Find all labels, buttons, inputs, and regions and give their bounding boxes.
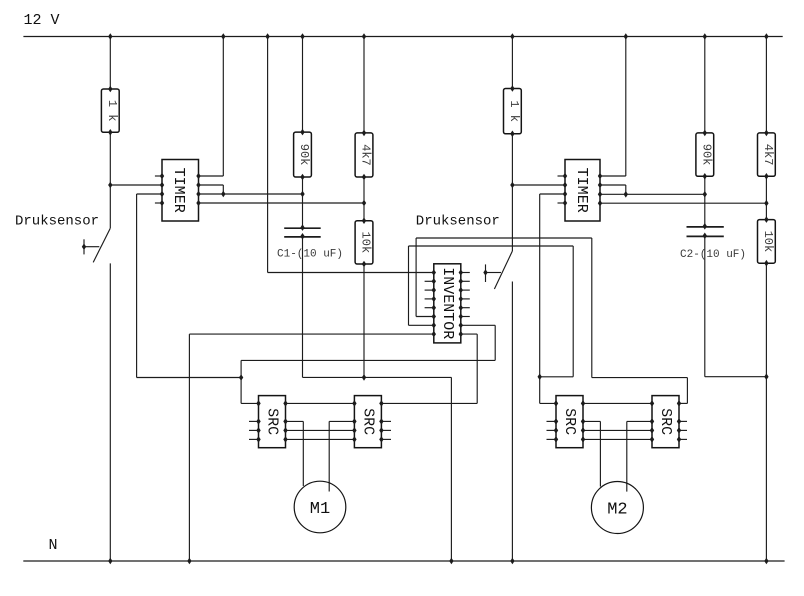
- svg-text:10k: 10k: [359, 232, 373, 254]
- svg-text:N: N: [49, 537, 58, 554]
- node junction SRC3 feed / U2 pin7 branch: [538, 374, 542, 381]
- wire R4 bottom to C1 net junction: [363, 264, 365, 377]
- timer U1 pin 2 left: [160, 182, 164, 189]
- resistor R1 1k (left): [101, 86, 119, 136]
- wire U5 to motor M1 right lead: [329, 420, 354, 422]
- driver U7 SRC box: [652, 396, 679, 448]
- wire U1 pin3 net down-left: [136, 194, 138, 378]
- wire +12V rail to R6 top: [703, 33, 707, 40]
- driver U6 pin dots: [554, 400, 585, 443]
- inverter U2 pins 2-5 left stubs: [425, 281, 434, 307]
- wire C2 bottom down-right to R8 net: [704, 236, 706, 376]
- wire U2 pin 6 left up-over to SRC4 top-right pin: [416, 316, 434, 318]
- motor M2: [591, 482, 643, 534]
- timer U3 pin 8 right wire to R7 bottom node: [598, 200, 602, 207]
- wire U4-U5 top pins: [286, 402, 355, 404]
- wire junction up-over to INVENTOR pin 7 right: [240, 360, 242, 403]
- node junction U1 pin6/pin7 net: [221, 191, 225, 198]
- wire junction to TIMER2 pin 2: [512, 184, 565, 186]
- timer U3 pin 6 right wire: [598, 182, 602, 189]
- resistor R2 90k (left): [294, 129, 312, 181]
- capacitor C1 plates: [284, 224, 321, 239]
- svg-text:1 k: 1 k: [507, 100, 521, 122]
- wire junction to TIMER1 pin 2: [110, 184, 162, 186]
- svg-text:SRC: SRC: [264, 408, 281, 435]
- svg-text:4k7: 4k7: [761, 144, 775, 166]
- wire U2 pin 8 left to N rail: [189, 333, 433, 335]
- svg-text:Druksensor: Druksensor: [15, 214, 99, 230]
- wire down to SRC3 top-left pin: [540, 402, 556, 404]
- wire S1 bottom to N rail: [109, 263, 111, 561]
- svg-text:M1: M1: [310, 500, 330, 519]
- driver U4 SRC box: [259, 396, 286, 448]
- timer U1 pin 7 right wire to R2 bottom node: [196, 191, 200, 198]
- driver U4 left stubs: [249, 421, 259, 439]
- switch S2 Druksensor (right): [483, 251, 512, 289]
- inverter U2 left pin dots: [432, 269, 436, 337]
- timer U1 pin 3 left wire: [137, 193, 162, 195]
- resistor R6 90k (right): [696, 130, 714, 180]
- svg-text:4k7: 4k7: [359, 144, 373, 166]
- svg-text:Druksensor: Druksensor: [416, 214, 500, 230]
- resistor R8 10k (right): [758, 216, 776, 266]
- node junction R7/U3 pin8: [764, 200, 768, 207]
- driver U5 right stubs: [381, 421, 391, 439]
- wire U7 to motor M2 right lead: [627, 420, 652, 422]
- timer U1 pin 5 right wire to +12V rail: [196, 173, 200, 180]
- wire U4 to motor M1 left lead: [286, 420, 304, 422]
- timer U3 pin 1 left stub: [558, 175, 566, 177]
- wire C1 bottom down and right to N rail: [302, 237, 304, 378]
- timer U3 pin 5 right wire to +12V rail: [598, 173, 602, 180]
- wire U6-U7 lower pins: [583, 438, 652, 440]
- timer U1 pin 8 right wire to R3 bottom node: [196, 200, 200, 207]
- timer U3 TIMER box (right): [565, 160, 600, 222]
- driver U4 pin dots: [256, 400, 287, 443]
- wire R1 bottom to Druksensor switch S1: [109, 132, 111, 228]
- svg-text:12 V: 12 V: [24, 12, 60, 29]
- wire U6-U7 middle pins: [583, 429, 652, 431]
- svg-text:90k: 90k: [699, 144, 713, 166]
- wire R3 bottom to R4 top: [363, 177, 365, 221]
- svg-text:C1-(10 uF): C1-(10 uF): [277, 249, 343, 261]
- wire +12V rail to R2 top: [300, 33, 304, 40]
- timer U3 pin 4 left stub: [558, 202, 566, 204]
- wire U6 to motor M2 left lead: [583, 420, 600, 422]
- inverter U2 pins 1-6 right stubs: [461, 273, 470, 317]
- svg-text:SRC: SRC: [359, 408, 376, 435]
- node junction R1/TIMER1 pin2: [108, 182, 112, 189]
- timer U1 pin 4 left stub: [155, 202, 162, 204]
- timer U1 TIMER box (left): [162, 160, 199, 222]
- capacitor C2 plates: [687, 223, 724, 239]
- driver U5 pin dots: [352, 400, 383, 443]
- node junction C1 net / R4 bottom: [362, 374, 366, 381]
- driver U7 pin dots: [650, 400, 681, 443]
- wire R5 bottom to Druksensor switch S2: [511, 134, 513, 251]
- svg-text:1 k: 1 k: [105, 100, 119, 122]
- wire U4-U5 middle pins: [286, 429, 355, 431]
- node junction R2/U1 pin7: [300, 191, 304, 198]
- wire U2 pin 8 right over-down to SRC2 top-right pin: [461, 333, 477, 335]
- wire U6-U7 top pins: [583, 402, 652, 404]
- inverter U2 INVENTOR box: [434, 264, 461, 343]
- wire U2 pin 1 left to +12V rail: [268, 272, 434, 274]
- svg-text:INVENTOR: INVENTOR: [439, 267, 456, 339]
- driver U6 SRC box: [556, 396, 583, 448]
- driver U5 SRC box: [354, 396, 381, 448]
- wire junction down to SRC1 top-left pin: [241, 402, 258, 404]
- wire +12V rail to R5 top: [510, 33, 514, 40]
- node junction C2 net / R8 line: [764, 373, 768, 380]
- svg-text:M2: M2: [607, 501, 627, 520]
- svg-text:SRC: SRC: [561, 408, 578, 435]
- timer U1 pin 1 left stub: [155, 175, 162, 177]
- wire bottom N rail: [23, 560, 784, 562]
- driver U7 right stubs: [679, 421, 687, 439]
- resistor R5 1k (right): [504, 85, 522, 137]
- inverter U2 right pin dots: [459, 269, 463, 337]
- resistor R4 10k (left): [355, 217, 373, 267]
- wire +12V rail to R7 top: [764, 33, 768, 40]
- resistor R3 4k7 (left): [355, 130, 373, 181]
- svg-text:90k: 90k: [297, 144, 311, 166]
- wire S2 bottom to N rail: [511, 282, 513, 562]
- wire R6 bottom to C2 top: [704, 176, 706, 226]
- node junction at SRC1 feed: [239, 374, 243, 381]
- svg-text:10k: 10k: [761, 231, 775, 253]
- timer U3 pin 7 right wire to R6 bottom node: [598, 191, 602, 198]
- svg-text:C2-(10 uF): C2-(10 uF): [680, 249, 746, 261]
- wire R7 bottom to R8 top: [765, 176, 767, 219]
- driver U6 left stubs: [547, 421, 557, 439]
- timer U1 pin 6 right wire: [196, 182, 200, 189]
- wire R2 bottom to C1 top: [302, 177, 304, 228]
- node junction R3/U1 pin8: [362, 200, 366, 207]
- timer U3 pin 3 left wire down to SRC3 feed: [563, 191, 567, 198]
- resistor R7 4k7 (right): [758, 130, 776, 180]
- node junction R5/TIMER2 pin2: [510, 182, 514, 189]
- wire +12V rail to R1 top: [108, 33, 112, 40]
- wire U4-U5 lower pins: [286, 438, 355, 440]
- svg-text:TIMER: TIMER: [170, 168, 187, 213]
- svg-text:TIMER: TIMER: [573, 168, 590, 213]
- svg-text:SRC: SRC: [657, 408, 674, 435]
- wire top +12V rail: [23, 36, 782, 38]
- node junction R6/U3 pin7: [703, 191, 707, 198]
- switch S1 Druksensor (left): [82, 228, 111, 262]
- wire +12V rail to R3 top: [362, 33, 366, 40]
- wire U2 pin 7 left up-over to SRC3 feed junction: [409, 324, 434, 326]
- node junction U3 pin6/pin7 net: [624, 191, 628, 198]
- wire R8 bottom to N rail: [765, 263, 767, 561]
- timer U3 pin 2 left: [563, 182, 567, 189]
- motor M1: [294, 481, 346, 533]
